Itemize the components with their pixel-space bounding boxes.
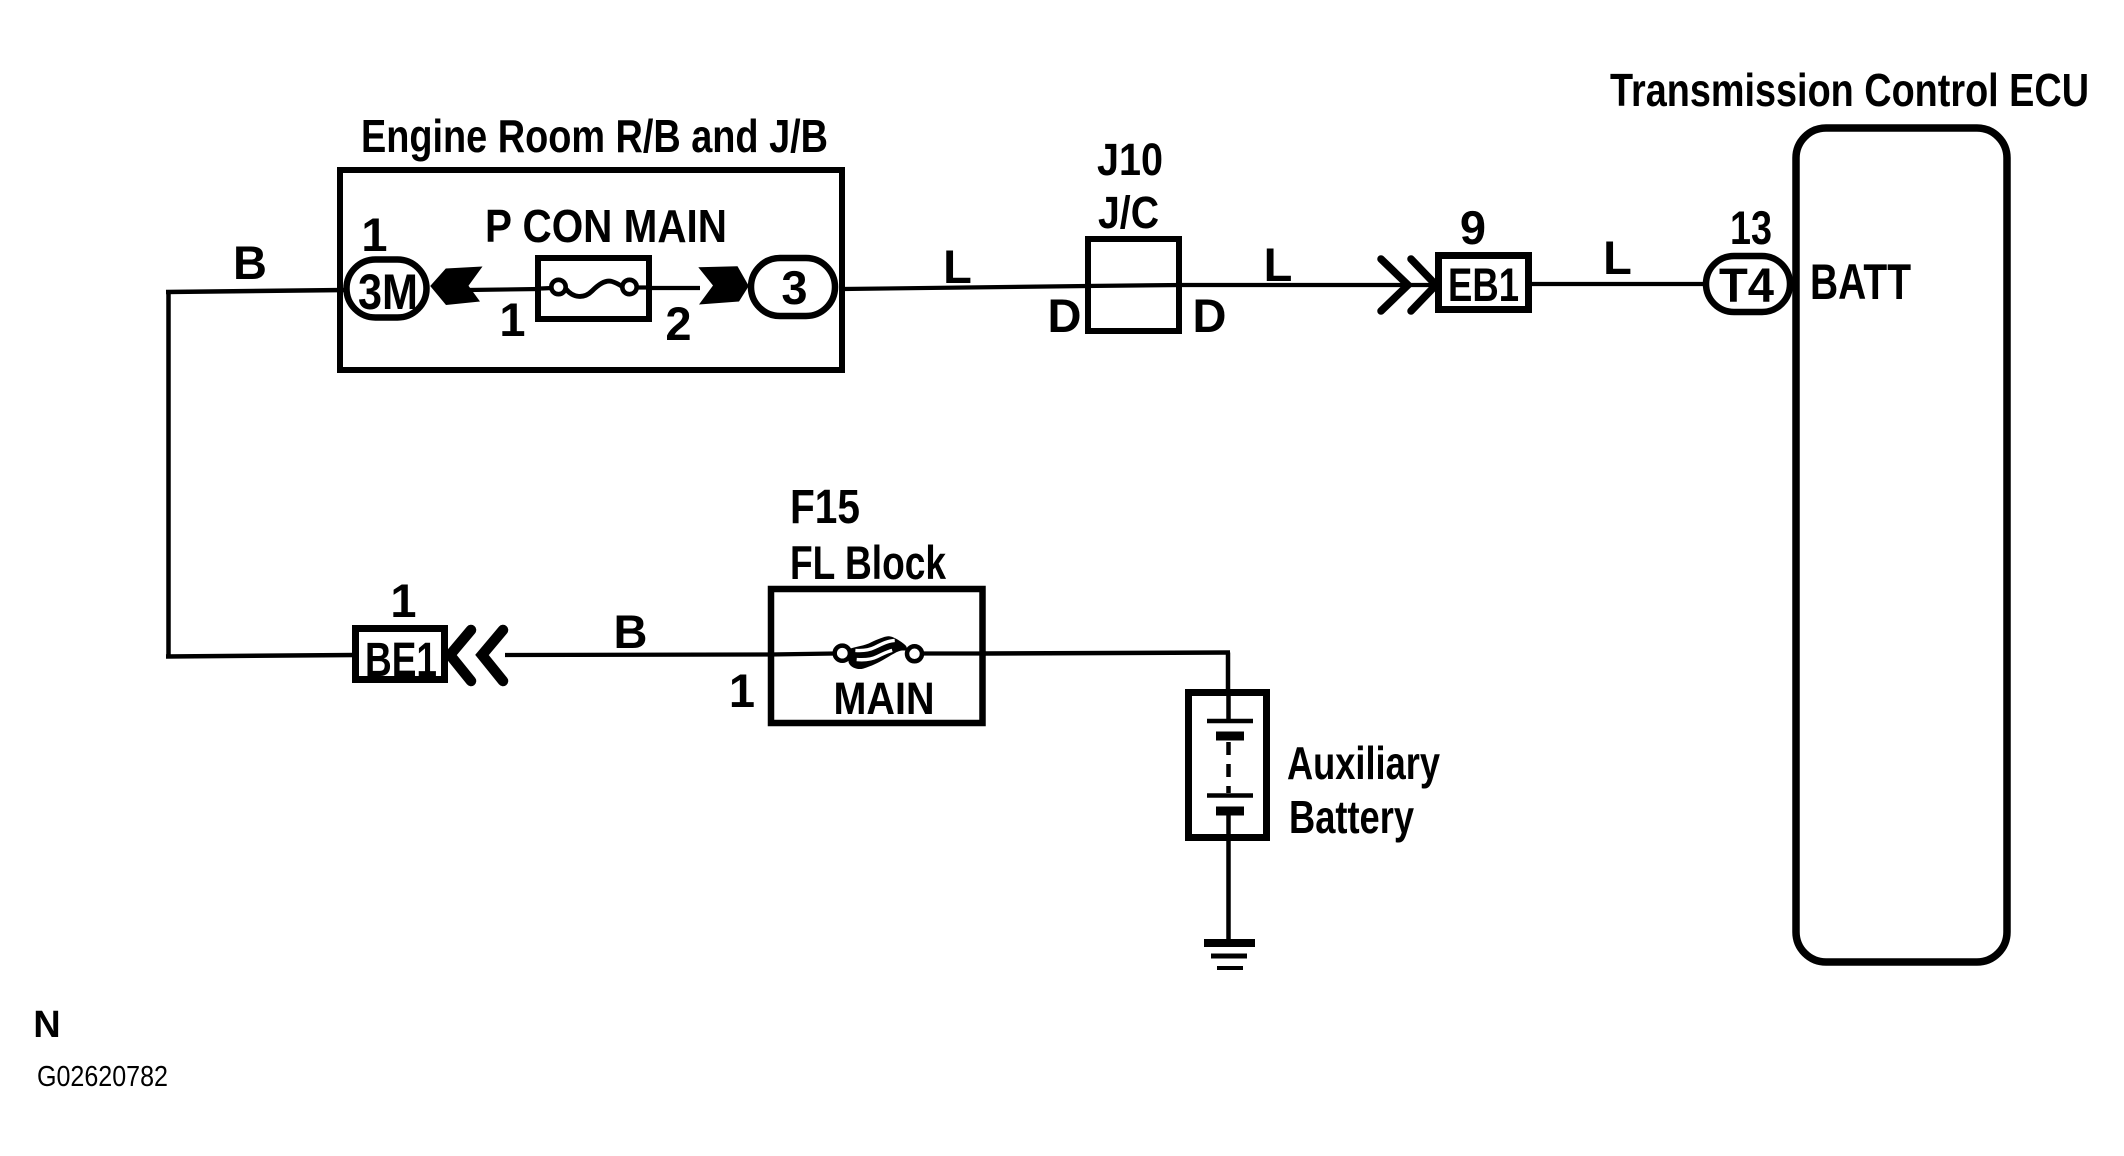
svg-text:9: 9 xyxy=(1460,201,1486,254)
junction block Engine Room R/B and J/B xyxy=(340,170,842,370)
wire through J/C xyxy=(1085,285,1182,286)
svg-text:Auxiliary: Auxiliary xyxy=(1287,737,1440,789)
wire fuse to arrow xyxy=(650,286,700,290)
svg-text:J10: J10 xyxy=(1097,134,1163,185)
splice chevron 2 into BE1 xyxy=(482,630,503,681)
wire EB1 to T4 xyxy=(1530,282,1706,286)
wire through FL block left xyxy=(770,654,835,655)
svg-text:1: 1 xyxy=(729,664,755,717)
svg-text:Battery: Battery xyxy=(1289,791,1414,843)
fusible link block F15 box xyxy=(771,589,983,723)
svg-text:Engine Room R/B and J/B: Engine Room R/B and J/B xyxy=(361,110,828,162)
fuse P CON MAIN box xyxy=(538,258,649,319)
battery cell symbol xyxy=(1207,694,1253,811)
svg-text:FL Block: FL Block xyxy=(790,536,947,589)
fuse element symbol xyxy=(541,280,652,297)
svg-text:D: D xyxy=(1048,289,1082,342)
connector arrow (solid, pointing right) at 3 xyxy=(698,266,749,304)
connector oval T4 xyxy=(1706,256,1790,313)
fusible link MAIN symbol xyxy=(835,636,922,669)
splice chevron 2 into EB1 xyxy=(1411,259,1436,311)
wire 3 to J/C xyxy=(843,286,1088,289)
svg-text:D: D xyxy=(1193,289,1227,342)
svg-text:G02620782: G02620782 xyxy=(37,1061,168,1093)
svg-text:J/C: J/C xyxy=(1098,187,1159,238)
connector EB1 xyxy=(1439,256,1529,312)
svg-text:N: N xyxy=(33,1004,60,1046)
svg-text:3: 3 xyxy=(781,261,807,314)
wire corner down into battery xyxy=(1226,653,1231,695)
svg-text:B: B xyxy=(233,236,267,289)
wire FL block to corner above battery xyxy=(984,653,1230,654)
wire BE1 to FL block xyxy=(505,652,772,657)
splice chevron 1 into BE1 xyxy=(450,630,471,681)
svg-text:MAIN: MAIN xyxy=(834,673,935,724)
svg-text:1: 1 xyxy=(361,208,387,261)
svg-text:B: B xyxy=(614,605,648,658)
wire B left vertical riser xyxy=(166,290,171,657)
wire top-left horizontal into 3M xyxy=(166,290,346,292)
svg-text:2: 2 xyxy=(665,297,691,350)
wire battery to ground xyxy=(1226,815,1231,941)
svg-text:1: 1 xyxy=(390,574,416,627)
svg-text:Transmission Control ECU: Transmission Control ECU xyxy=(1610,64,2089,116)
wire through FL block right xyxy=(922,651,986,655)
svg-text:L: L xyxy=(1603,231,1632,284)
connector BE1 xyxy=(356,629,445,688)
connector oval 3 xyxy=(751,258,835,316)
splice chevron 1 into EB1 xyxy=(1381,259,1408,311)
ECU box Transmission Control ECU xyxy=(1796,128,2007,962)
svg-text:F15: F15 xyxy=(790,481,860,534)
svg-text:L: L xyxy=(943,240,972,293)
connector oval 3M xyxy=(347,260,427,321)
svg-text:BE1: BE1 xyxy=(365,634,437,687)
svg-text:13: 13 xyxy=(1730,201,1772,254)
junction connector J10 box xyxy=(1088,239,1179,331)
ground xyxy=(1204,943,1255,968)
svg-text:1: 1 xyxy=(499,293,525,346)
svg-text:3M: 3M xyxy=(358,264,418,320)
svg-text:T4: T4 xyxy=(1719,260,1774,313)
wire arrow to fuse xyxy=(468,289,540,290)
svg-text:P CON MAIN: P CON MAIN xyxy=(485,200,727,252)
battery box Auxiliary Battery xyxy=(1189,693,1267,838)
wire J/C to EB1 xyxy=(1180,283,1437,287)
svg-text:EB1: EB1 xyxy=(1448,258,1519,311)
connector arrow (solid, pointing left) at 3M xyxy=(430,267,482,306)
svg-text:BATT: BATT xyxy=(1810,254,1911,310)
svg-text:L: L xyxy=(1264,238,1293,291)
wire bottom-left horizontal into BE1 xyxy=(166,655,356,657)
